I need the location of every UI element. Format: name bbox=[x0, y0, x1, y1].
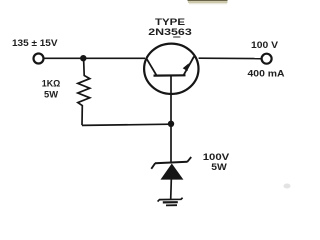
input terminal bbox=[34, 54, 44, 64]
smudge under label bbox=[173, 36, 181, 38]
faint smudge bottom right bbox=[284, 184, 291, 189]
transistor Q1 2N3563 bbox=[144, 44, 198, 94]
scan artifact bar top bbox=[188, 0, 228, 4]
svg-text:135 ± 15V: 135 ± 15V bbox=[12, 38, 58, 49]
wire zener to ground bbox=[170, 180, 173, 200]
resistor R1 1K 5W bbox=[78, 58, 90, 125]
svg-text:100 V: 100 V bbox=[251, 40, 279, 51]
svg-text:5W: 5W bbox=[211, 162, 227, 173]
svg-text:2N3563: 2N3563 bbox=[148, 27, 192, 38]
svg-text:5W: 5W bbox=[44, 89, 58, 100]
node B junction dot bbox=[168, 121, 174, 127]
svg-text:1KΩ: 1KΩ bbox=[42, 79, 61, 90]
node A junction dot bbox=[80, 55, 86, 61]
zener diode D1 bbox=[151, 157, 191, 180]
svg-text:400 mA: 400 mA bbox=[248, 68, 285, 79]
base lead wire bbox=[170, 76, 172, 162]
ground bbox=[158, 198, 183, 206]
wire resistor bottom to base node bbox=[82, 124, 171, 125]
output terminal bbox=[262, 54, 272, 64]
wire input to transistor bbox=[44, 57, 145, 59]
wire transistor to output bbox=[199, 57, 261, 59]
